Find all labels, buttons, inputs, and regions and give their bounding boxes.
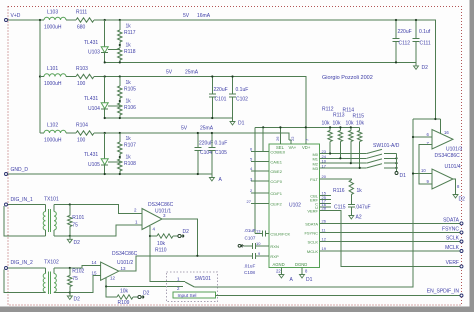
svg-text:R103: R103	[76, 66, 88, 72]
shunt regulator U105 TL431	[104, 150, 106, 159]
svg-text:CE/F2: CE/F2	[270, 202, 282, 207]
svg-text:1k: 1k	[126, 80, 132, 86]
ground D2 TX102	[69, 293, 71, 297]
svg-text:R107: R107	[124, 143, 136, 149]
svg-text:U104: U104	[88, 106, 100, 112]
resistor R112	[329, 127, 331, 130]
svg-text:DGND: DGND	[295, 262, 307, 267]
connector GND_D	[5, 173, 8, 176]
resistor R116	[349, 180, 353, 195]
resistor R104	[76, 131, 94, 135]
svg-text:1k: 1k	[357, 188, 363, 194]
wire pin7 pin9 tie	[419, 145, 432, 185]
resistor R102	[69, 268, 71, 276]
svg-text:25mA: 25mA	[200, 126, 214, 132]
svg-text:VA+: VA+	[289, 145, 297, 150]
shunt regulator U104 TL431	[104, 94, 106, 103]
wire 5V16 rail	[94, 20, 435, 119]
wire reg1 ground bus	[105, 61, 416, 63]
svg-text:1000uH: 1000uH	[44, 81, 62, 87]
svg-text:5V: 5V	[183, 13, 190, 19]
capacitor C105	[211, 133, 213, 148]
wire row2 rail from feed	[39, 75, 41, 77]
svg-text:10k: 10k	[333, 121, 342, 127]
wire 5V to receivers	[413, 118, 440, 120]
connector FSYNC	[460, 231, 463, 234]
net port D2 R109	[138, 295, 141, 298]
svg-text:L103: L103	[47, 10, 58, 16]
connector DIG_IN_1	[5, 203, 8, 206]
svg-text:12: 12	[322, 237, 327, 242]
svg-text:10k: 10k	[356, 121, 365, 127]
wire TX101 secondary bottom	[54, 225, 142, 236]
svg-text:RXN: RXN	[270, 244, 279, 249]
svg-text:TL431: TL431	[84, 96, 98, 102]
svg-text:1000uH: 1000uH	[44, 138, 62, 144]
svg-text:15: 15	[92, 270, 98, 275]
capacitor C104	[197, 133, 199, 148]
svg-text:TX101: TX101	[44, 197, 59, 203]
svg-text:C112: C112	[399, 41, 411, 47]
connector V+D	[5, 19, 8, 22]
wire enable pin4	[150, 226, 185, 282]
svg-text:DIG_IN_1: DIG_IN_1	[11, 197, 33, 203]
svg-text:.01uF: .01uF	[244, 228, 256, 233]
svg-text:MCLK: MCLK	[445, 245, 460, 251]
svg-text:U102: U102	[289, 203, 301, 209]
wire TX102 secondary top	[54, 265, 101, 268]
wire SDATA	[320, 222, 461, 224]
wire reg1 output to TL431	[104, 20, 106, 37]
svg-text:D2: D2	[183, 229, 190, 235]
svg-text:14: 14	[92, 260, 98, 265]
svg-text:100: 100	[77, 81, 86, 87]
net port D2 R110	[178, 234, 181, 237]
svg-text:680: 680	[77, 25, 86, 31]
svg-text:VERF: VERF	[446, 260, 459, 266]
wire MCLK	[320, 250, 461, 252]
svg-text:C105: C105	[215, 150, 227, 156]
svg-text:1k: 1k	[126, 43, 132, 49]
wire EN_SPDIF_IN	[216, 295, 461, 297]
op-amp U101/3	[432, 130, 453, 150]
svg-text:SDATA: SDATA	[443, 217, 460, 223]
ground D2 reg1	[415, 62, 417, 66]
svg-text:22: 22	[276, 269, 281, 274]
svg-text:220uF: 220uF	[214, 87, 228, 93]
wire FSYNC	[320, 231, 461, 233]
svg-text:D2: D2	[459, 197, 466, 203]
connector SCLK	[460, 240, 463, 243]
svg-text:L102: L102	[47, 123, 58, 129]
capacitor C115	[350, 195, 352, 205]
svg-text:VD+: VD+	[302, 145, 311, 150]
svg-text:27: 27	[247, 199, 252, 204]
svg-text:DIG_IN_2: DIG_IN_2	[11, 260, 33, 266]
ground A2	[350, 212, 352, 216]
wire reg2 ground bus	[105, 117, 233, 119]
svg-text:D2: D2	[422, 65, 429, 71]
wires M0-M3 mode lines	[320, 153, 367, 155]
svg-text:TX102: TX102	[44, 260, 59, 266]
wire SCLK	[320, 241, 461, 243]
svg-text:U101/3: U101/3	[446, 147, 462, 153]
page shadow right	[470, 0, 474, 312]
svg-text:16mA: 16mA	[197, 13, 211, 19]
svg-text:DS34C86C: DS34C86C	[112, 251, 138, 257]
svg-text:R111: R111	[76, 10, 87, 16]
svg-text:22: 22	[290, 136, 295, 141]
svg-text:V+D: V+D	[11, 13, 21, 19]
connector MCLK	[460, 250, 463, 253]
wire pin6 tie high	[251, 127, 263, 151]
svg-text:20: 20	[322, 174, 327, 179]
resistor R117	[119, 20, 121, 30]
wire 5V25 analog rail	[94, 133, 289, 140]
svg-text:R102: R102	[72, 269, 84, 275]
capacitor C102	[232, 77, 234, 95]
svg-text:R104: R104	[76, 123, 88, 129]
resistor R115	[359, 127, 361, 130]
svg-text:SCLK: SCLK	[308, 240, 319, 245]
svg-text:10k: 10k	[322, 121, 331, 127]
svg-text:CC/F0: CC/F0	[270, 179, 282, 184]
svg-text:A2: A2	[356, 215, 362, 221]
svg-text:12: 12	[110, 276, 116, 281]
connector VERF	[460, 265, 463, 268]
svg-text:10: 10	[421, 168, 426, 173]
wire enable pin12	[106, 278, 183, 287]
svg-text:10k: 10k	[157, 241, 166, 247]
svg-text:.01uF: .01uF	[244, 264, 256, 269]
connector EN_SPDIF_IN	[460, 294, 463, 297]
svg-text:D2: D2	[143, 291, 150, 297]
svg-text:TL431: TL431	[84, 40, 98, 46]
svg-text:CB/E2: CB/E2	[270, 169, 282, 174]
resistor R110	[157, 234, 173, 238]
capacitor C111	[415, 20, 417, 39]
inductor L101	[44, 74, 66, 77]
resistor R101	[69, 205, 71, 216]
pin SEL stub	[279, 127, 281, 143]
svg-text:R117: R117	[124, 30, 136, 36]
svg-text:25mA: 25mA	[185, 70, 199, 76]
svg-text:D1: D1	[400, 173, 407, 179]
svg-text:GND_D: GND_D	[11, 167, 29, 173]
capacitor C108	[252, 255, 253, 257]
pin VD+ stub	[305, 127, 307, 143]
svg-text:R118: R118	[124, 49, 136, 55]
svg-text:R109: R109	[118, 300, 130, 306]
switch blade	[185, 282, 194, 287]
svg-text:CSLR/FCK: CSLR/FCK	[270, 232, 290, 237]
svg-text:SDATA: SDATA	[305, 221, 318, 226]
svg-text:MCLK: MCLK	[307, 249, 318, 254]
wire switch common bus	[396, 154, 398, 172]
op-amp U101/4	[432, 169, 453, 189]
svg-text:M3: M3	[312, 166, 318, 171]
svg-text:C102: C102	[236, 97, 248, 103]
svg-text:5V: 5V	[166, 70, 173, 76]
svg-text:Giorgio Pozzoli 2002: Giorgio Pozzoli 2002	[322, 75, 373, 81]
input sel label box	[173, 292, 216, 298]
svg-text:1k: 1k	[126, 24, 132, 30]
svg-text:DS34C86C: DS34C86C	[148, 202, 174, 208]
svg-text:13: 13	[256, 229, 261, 234]
svg-text:FILT: FILT	[310, 177, 318, 182]
resistor R114	[350, 127, 352, 130]
ground D1 switch	[395, 172, 398, 175]
svg-text:26: 26	[275, 136, 280, 141]
svg-text:75: 75	[72, 276, 78, 282]
net arrow RXN	[241, 244, 244, 247]
svg-text:CA/E1: CA/E1	[270, 160, 282, 165]
page shadow bottom	[0, 307, 474, 312]
svg-text:RXP: RXP	[270, 254, 279, 259]
svg-text:FSYNC: FSYNC	[304, 230, 318, 235]
svg-text:TL431: TL431	[84, 152, 98, 158]
resistor R103	[76, 74, 94, 78]
wire 5V25 digital rail	[94, 77, 306, 141]
wire VERF	[320, 211, 461, 267]
svg-text:C107: C107	[245, 236, 256, 241]
svg-text:10k: 10k	[120, 289, 129, 295]
svg-text:U105: U105	[88, 162, 100, 168]
svg-text:D2: D2	[74, 297, 81, 303]
svg-text:FSYNC: FSYNC	[442, 226, 459, 232]
wire VCC pin16 U101	[439, 119, 441, 134]
svg-text:R101: R101	[72, 215, 84, 221]
resistor R111	[76, 18, 94, 22]
svg-text:SCLK: SCLK	[446, 236, 460, 242]
svg-text:220uF: 220uF	[199, 141, 213, 147]
wire U101/2 output	[119, 256, 252, 271]
svg-text:D2: D2	[74, 240, 81, 246]
svg-text:1k: 1k	[126, 136, 132, 142]
svg-text:R115: R115	[353, 114, 365, 120]
resistor R108	[118, 159, 122, 171]
wire reg2 output to TL431	[104, 77, 106, 94]
capacitor RXN	[244, 245, 253, 247]
svg-text:C108: C108	[244, 270, 255, 275]
wire U101/1 output	[162, 219, 197, 256]
resistor R107	[119, 133, 121, 142]
wire	[66, 132, 76, 134]
svg-text:VERF: VERF	[307, 209, 318, 214]
svg-text:D1: D1	[306, 277, 313, 283]
svg-text:220uF: 220uF	[398, 29, 412, 35]
wire analog ground bus GND_D	[8, 173, 212, 175]
wire	[66, 76, 76, 78]
capacitor C101	[211, 77, 213, 95]
svg-text:0.1uF: 0.1uF	[236, 87, 249, 93]
svg-text:R108: R108	[124, 161, 136, 167]
wire pin10	[413, 173, 432, 175]
svg-text:1000uH: 1000uH	[44, 25, 62, 31]
svg-text:100: 100	[77, 138, 86, 144]
connector DIG_IN_2	[5, 267, 8, 270]
ground D1 DGND	[301, 268, 303, 271]
svg-text:0.1uF: 0.1uF	[215, 141, 228, 147]
svg-text:D1: D1	[238, 121, 245, 127]
capacitor C107	[255, 233, 263, 235]
svg-text:.047uF: .047uF	[355, 205, 371, 211]
IC U102 body	[269, 144, 320, 268]
svg-text:0.1uf: 0.1uf	[419, 29, 431, 35]
svg-text:L101: L101	[47, 66, 58, 72]
ground D1 reg2	[232, 118, 234, 122]
svg-text:C115: C115	[334, 205, 346, 211]
svg-text:19: 19	[322, 246, 327, 251]
svg-text:R116: R116	[333, 188, 345, 194]
wire TX102 secondary bottom	[54, 276, 101, 293]
resistor R113	[339, 127, 341, 130]
svg-text:EN_SPDIF_IN: EN_SPDIF_IN	[427, 289, 460, 295]
svg-text:CD/F1: CD/F1	[270, 191, 282, 196]
svg-text:C101: C101	[215, 97, 227, 103]
svg-text:R105: R105	[124, 87, 136, 93]
svg-text:AGND: AGND	[273, 262, 285, 267]
ground A reg3	[211, 174, 213, 178]
svg-text:SW101-A/D: SW101-A/D	[373, 143, 400, 149]
ground A AGND	[280, 268, 282, 271]
resistor R109	[106, 287, 117, 298]
svg-text:10k: 10k	[346, 121, 355, 127]
wire reg3 output to TL431	[104, 133, 106, 150]
svg-text:1k: 1k	[126, 155, 132, 161]
svg-text:13: 13	[121, 266, 127, 271]
svg-text:C111: C111	[420, 41, 431, 47]
inductor L102	[40, 132, 44, 134]
svg-text:U103: U103	[88, 50, 100, 56]
svg-text:U101/4: U101/4	[445, 164, 461, 170]
ground D2 pin8	[453, 179, 456, 191]
resistor R106	[118, 103, 122, 115]
svg-text:16: 16	[444, 130, 449, 135]
resistor R118	[118, 48, 122, 60]
resistor R105	[119, 77, 121, 87]
inductor L103	[44, 17, 66, 20]
svg-text:Input Sel: Input Sel	[178, 293, 197, 299]
wire V+D vertical feed	[39, 20, 41, 133]
switch common wire	[194, 119, 413, 287]
wire pin6	[413, 136, 432, 138]
svg-text:R110: R110	[155, 248, 167, 254]
svg-text:28: 28	[322, 206, 327, 211]
capacitor C112	[395, 20, 397, 39]
svg-text:R106: R106	[124, 105, 136, 111]
svg-text:DS34C86C: DS34C86C	[435, 153, 461, 159]
svg-text:75: 75	[72, 223, 78, 229]
wire C107 feed vertical	[254, 127, 256, 233]
connector SDATA	[460, 222, 463, 225]
svg-text:1k: 1k	[126, 99, 132, 105]
pin VA+ stub	[290, 140, 292, 144]
wire FILT	[320, 179, 352, 180]
svg-text:5V: 5V	[181, 126, 188, 132]
svg-text:SW101: SW101	[195, 276, 212, 282]
wire VD+ digital 5V net	[255, 126, 360, 128]
wire	[66, 19, 76, 21]
switch SW101 box	[167, 272, 218, 302]
svg-text:COB/E0: COB/E0	[270, 149, 285, 154]
wire V+D rail	[8, 19, 44, 21]
shunt regulator U103 TL431	[104, 37, 106, 47]
svg-text:26: 26	[322, 219, 327, 224]
ground D2 TX101	[69, 236, 71, 240]
wire TX101 secondary top	[54, 205, 142, 214]
svg-text:10: 10	[256, 241, 261, 246]
